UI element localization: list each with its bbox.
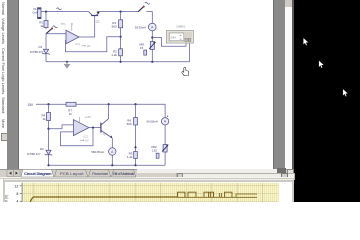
node A wire to op-amp — [46, 33, 66, 35]
svg-text:0V: 0V — [85, 139, 89, 143]
wire top rail left — [41, 11, 89, 13]
wire VR1 to rail — [151, 50, 153, 62]
hand cursor — [182, 67, 189, 75]
trace pulse 3 — [204, 192, 214, 197]
wire between R3 and node — [120, 28, 122, 49]
svg-text:D2: D2 — [40, 147, 44, 151]
op-amp IC2 — [73, 115, 91, 143]
wire A1 to VR1 — [151, 31, 153, 42]
svg-text:120: 120 — [152, 149, 157, 153]
svg-text:Bill of Materials: Bill of Materials — [113, 171, 134, 176]
right dark window edge — [292, 0, 295, 178]
trace pulse 4 — [225, 192, 232, 197]
trace pulse 3 inner bars — [209, 192, 211, 197]
svg-text:1N758 4V7: 1N758 4V7 — [27, 152, 41, 156]
ammeter A1 — [135, 23, 156, 31]
arrow cursor 2 — [319, 60, 324, 68]
scrollbar bottom buttons — [277, 168, 287, 173]
right gray strip — [273, 0, 286, 169]
wire below R4 — [48, 121, 50, 151]
op-amp output wire — [79, 36, 95, 38]
tab Circuit Diagram (active) — [21, 169, 54, 177]
node junction R6 branch — [134, 103, 136, 105]
left gray strip — [7, 0, 19, 169]
node junction R2-rail — [120, 61, 122, 63]
resistor R4 — [42, 113, 51, 122]
node junction ammeter-rail — [111, 164, 113, 166]
plot area — [22, 183, 279, 202]
node junction op-amp input — [47, 128, 49, 130]
transistor Q2 — [89, 11, 100, 23]
switch SW2 lever — [138, 6, 144, 11]
top rail mid — [99, 11, 138, 13]
zener D2 — [27, 147, 52, 156]
major gridlines — [22, 183, 279, 202]
svg-text:5.84: 5.84 — [171, 36, 177, 40]
trace double bar — [220, 193, 222, 197]
svg-text:Circuit Diagram: Circuit Diagram — [24, 171, 52, 176]
trace step tail — [236, 194, 257, 197]
svg-text:1k: 1k — [69, 112, 73, 116]
base riser wire — [94, 16, 96, 38]
divider node — [120, 36, 122, 38]
resistor R1 — [39, 21, 48, 29]
svg-text:560: 560 — [127, 122, 132, 126]
signal marker SW2 — [145, 2, 150, 4]
feedback loop wire — [61, 128, 94, 146]
output wire — [89, 127, 101, 129]
tab Bill of Materials — [112, 170, 136, 177]
svg-text:1.2k: 1.2k — [127, 155, 133, 159]
op-amp IC1 — [61, 22, 91, 48]
left white strip with rotated labels — [0, 0, 7, 169]
resistor R3 — [112, 20, 123, 29]
svg-text:V (V): V (V) — [5, 195, 9, 202]
potentiometer VR1 — [139, 42, 156, 56]
svg-text:15V: 15V — [28, 103, 35, 107]
right white strip — [285, 0, 292, 169]
wire zener to rail — [45, 54, 47, 62]
tab scroll buttons — [7, 170, 14, 177]
wire R2 to rail — [120, 56, 122, 62]
node junction at R1 branch — [45, 11, 47, 13]
svg-text:1k: 1k — [40, 24, 44, 28]
trace pulse 1 — [178, 192, 186, 197]
emitter wire to ammeter — [111, 138, 113, 148]
node junction feedback tap — [92, 127, 94, 129]
wire A3 to VR2 — [164, 125, 166, 145]
wire R6 to R5 — [135, 125, 137, 152]
transistor Q4 — [101, 119, 112, 139]
svg-text:1k: 1k — [43, 117, 47, 121]
svg-text:560: 560 — [112, 24, 117, 28]
resistor R5 — [127, 151, 137, 159]
graph window — [3, 178, 294, 202]
svg-text:1N758 4V7: 1N758 4V7 — [30, 50, 44, 54]
wire R1 branch — [45, 12, 47, 21]
trace pulse 2 — [188, 192, 196, 197]
svg-text:54.50mA: 54.50mA — [147, 120, 158, 124]
svg-text:560.05mA: 560.05mA — [91, 150, 104, 154]
svg-text:IC1: IC1 — [76, 42, 81, 46]
bottom rail — [46, 61, 190, 63]
resistor R6 — [127, 118, 138, 127]
resistor R2 — [111, 49, 122, 57]
svg-text:4: 4 — [17, 199, 19, 202]
zener D1 — [30, 45, 50, 55]
ammeter A2 — [91, 148, 116, 155]
node junction divider tap — [134, 146, 136, 148]
feedback wire to inverting input — [66, 37, 121, 52]
resistor R7 inline — [66, 102, 76, 116]
wire to op-amp non-inverting input — [49, 125, 74, 129]
tab PCB Layout — [55, 170, 88, 177]
svg-text:Q4: Q4 — [103, 132, 107, 136]
top rail left — [36, 103, 66, 105]
svg-text:15: 15 — [140, 46, 144, 50]
node junction R4 branch — [47, 103, 49, 105]
light area right of tabs — [137, 169, 277, 173]
arrow cursor 3 — [343, 89, 348, 97]
arrow cursor 1 — [303, 38, 308, 46]
wire down to zener — [45, 34, 47, 50]
potentiometer VR2 — [151, 145, 169, 159]
tab bar — [0, 169, 294, 180]
node junction R5-rail — [134, 164, 136, 166]
signal marker SW1 — [53, 26, 58, 28]
signal marker — [57, 8, 62, 10]
wire to DMM left terminal — [152, 38, 186, 47]
h scrollbar — [176, 173, 295, 180]
wire DMM right terminal to rail — [189, 43, 191, 62]
ammeter A3 — [147, 116, 169, 125]
svg-text:38.35mA: 38.35mA — [135, 25, 146, 29]
wire R3 branch — [120, 12, 122, 20]
svg-text:8: 8 — [17, 192, 19, 196]
minor grid — [22, 183, 279, 202]
svg-text:PCB Layout: PCB Layout — [60, 171, 84, 176]
trace baseline through pulse region — [177, 196, 257, 198]
node junction zener-rail — [47, 164, 49, 166]
svg-text:Flowchart: Flowchart — [92, 171, 108, 176]
wire A2 to rail — [111, 155, 113, 165]
node junction collector riser — [108, 103, 110, 105]
node junction R3 — [120, 11, 122, 13]
ground — [64, 61, 71, 69]
wire VR2 to rail — [164, 152, 166, 165]
svg-text:1.2k: 1.2k — [111, 53, 117, 57]
top rail right + corner down — [76, 104, 165, 117]
node junction VR1-rail — [151, 61, 153, 63]
svg-text:+15V: +15V — [85, 115, 92, 119]
collector riser — [108, 104, 110, 119]
trace V(out) main rise and flat — [30, 197, 177, 202]
wire zener to rail — [48, 155, 50, 166]
black desktop — [294, 0, 360, 202]
plot y-axis line — [21, 183, 23, 202]
wire R6 branch — [135, 104, 137, 117]
svg-text:DMM1: DMM1 — [177, 24, 186, 28]
node junction DMM tap — [151, 36, 153, 38]
svg-text:12: 12 — [15, 184, 19, 188]
wire R5 to rail — [135, 159, 137, 166]
svg-text:TP1: TP1 — [61, 22, 67, 26]
multimeter DMM1 — [167, 24, 194, 43]
wire below R1 — [45, 28, 47, 30]
top rail right + corner down — [146, 12, 152, 24]
wire R4 branch — [48, 104, 50, 112]
switch SW1 lever — [46, 28, 52, 34]
bottom rail — [49, 164, 166, 166]
battery V1 — [32, 7, 41, 19]
svg-text:0V: 0V — [87, 44, 91, 48]
svg-text:Q2: Q2 — [96, 19, 100, 23]
svg-text:Cell: Cell — [32, 10, 38, 14]
svg-text:D1: D1 — [39, 45, 43, 49]
tab Flowchart — [89, 170, 111, 177]
